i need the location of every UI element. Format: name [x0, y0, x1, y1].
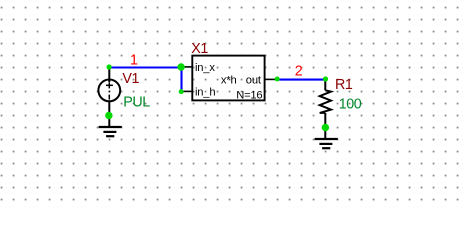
V1 bottom lead [108, 101, 110, 127]
pin stub in_x [182, 66, 193, 68]
voltage source V1 [98, 67, 120, 127]
R1 top lead [324, 79, 326, 90]
svg-text:100: 100 [339, 97, 362, 113]
V1 circle [98, 80, 120, 102]
ground under V1 [99, 127, 122, 136]
svg-text:in_x: in_x [195, 62, 215, 74]
node dot X1 corner junction (big) [177, 63, 184, 70]
V1 center dot [108, 91, 110, 93]
pin stub in_h [182, 90, 193, 92]
svg-text:V1: V1 [122, 71, 139, 87]
V1 plus sign [108, 82, 110, 88]
svg-text:1: 1 [130, 52, 138, 68]
wire net 2 out to R1 [277, 79, 326, 81]
svg-text:R1: R1 [335, 77, 353, 93]
svg-text:2: 2 [295, 64, 303, 80]
V1 center dash [108, 95, 110, 100]
white underlays masking grid dots beneath strokes [99, 66, 338, 141]
svg-text:out: out [246, 74, 262, 86]
V1 top lead [108, 67, 110, 82]
node dot R1 bottom / gnd (big) [322, 124, 329, 131]
R1 bottom lead [324, 113, 326, 139]
svg-text:in_h: in_h [195, 87, 215, 99]
svg-text:PUL: PUL [123, 95, 150, 111]
node dot out pin (small) [275, 77, 280, 82]
svg-text:x*h: x*h [221, 74, 237, 86]
subcircuit X1 box [192, 56, 264, 101]
node dot in_h pin (small) [179, 89, 184, 94]
node dot V1 bottom / gnd (big) [105, 112, 112, 119]
node dot R1 top (small) [323, 76, 328, 81]
svg-text:N=16: N=16 [236, 90, 262, 102]
svg-text:X1: X1 [191, 41, 208, 57]
node dot V1 top (small) [107, 64, 112, 69]
pin stub out [265, 78, 277, 80]
resistor R1 [320, 79, 331, 139]
ground under R1 [315, 139, 338, 148]
wire net 1 horizontal V1+ to X1 corner [109, 66, 183, 68]
R1 zigzag [320, 90, 331, 113]
wire net 1 vertical down to in_h [180, 67, 182, 92]
